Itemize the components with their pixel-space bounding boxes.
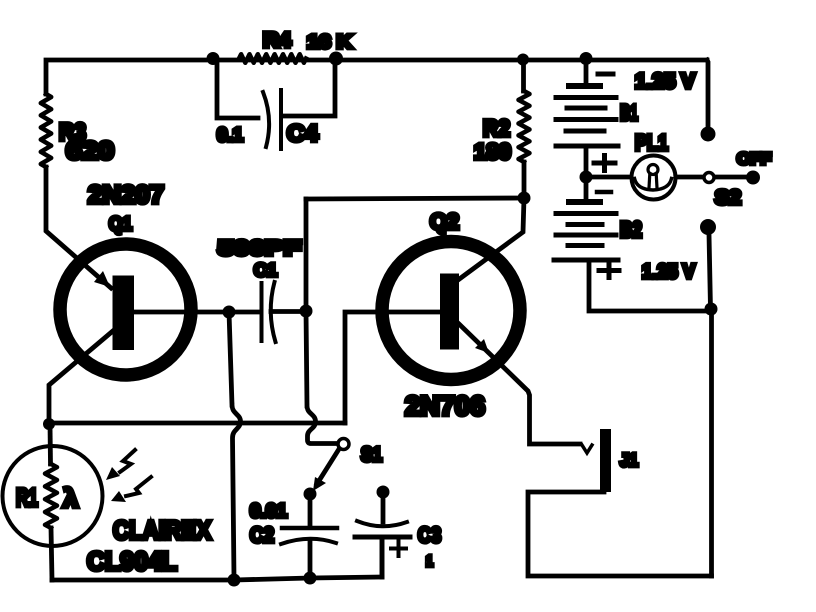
wire feedback vertical x306 xyxy=(304,199,309,311)
switch S1 arm xyxy=(317,449,339,484)
capacitor C4 curved plate xyxy=(263,92,269,147)
svg-text:J1: J1 xyxy=(620,450,638,470)
battery B1 minus sign xyxy=(598,72,613,77)
svg-text:1.25 V: 1.25 V xyxy=(635,70,695,93)
svg-text:2N706: 2N706 xyxy=(405,391,485,421)
wire lamp to S2 xyxy=(676,175,703,180)
light arrow 1 xyxy=(120,450,135,472)
capacitor C3 plus sign xyxy=(391,541,406,556)
svg-text:1.25 V: 1.25 V xyxy=(642,261,696,283)
transistor Q2 base bar xyxy=(440,274,459,350)
node dot bottom rail x234 xyxy=(228,574,241,587)
capacitor C2 straight plate xyxy=(282,526,337,531)
node dot Q1 base junction xyxy=(223,306,236,319)
node dot top-left R4 junction xyxy=(207,52,220,65)
wire feedback horizontal y199 xyxy=(306,198,524,199)
capacitor C2 curved plate xyxy=(281,539,336,544)
transistor Q1 emitter arrowhead xyxy=(94,271,110,287)
resistor element R1 xyxy=(45,464,57,528)
resistor R3 xyxy=(41,94,51,167)
node dot bottom rail C2 xyxy=(304,572,317,585)
svg-text:λ: λ xyxy=(63,483,79,513)
svg-text:1: 1 xyxy=(426,553,433,570)
svg-text:16 K: 16 K xyxy=(307,32,352,53)
capacitor C2 top lead xyxy=(308,494,313,526)
svg-text:B1: B1 xyxy=(620,100,638,125)
battery B2 plus sign xyxy=(599,264,619,278)
jack J1 bar xyxy=(600,429,611,492)
wire bottom rail left xyxy=(52,577,382,580)
capacitor C4 right bracket wire xyxy=(283,60,335,116)
capacitor C3 straight plate xyxy=(355,535,410,540)
node dot C1 right junction xyxy=(300,305,313,318)
node dot S2 upper contact xyxy=(701,127,716,142)
svg-text:CLAIREX: CLAIREX xyxy=(113,515,212,545)
node dot S2 OFF contact xyxy=(746,171,760,185)
svg-text:R2: R2 xyxy=(483,115,510,141)
switch S1 arm arrowhead xyxy=(313,477,326,491)
svg-text:500PF: 500PF xyxy=(218,237,301,260)
capacitor C4 straight plate xyxy=(279,90,283,149)
capacitor C1 curved plate xyxy=(271,282,276,342)
node dot battery junction xyxy=(580,171,593,184)
transistor Q2 collector lead xyxy=(458,198,524,280)
transistor Q2 circle xyxy=(382,242,520,380)
battery B2 plates xyxy=(554,202,618,260)
svg-text:S2: S2 xyxy=(715,187,741,209)
battery B1 plus sign xyxy=(594,156,615,171)
light arrow 2 xyxy=(126,477,151,496)
svg-text:R4: R4 xyxy=(263,29,291,52)
battery B1 bottom lead xyxy=(584,148,589,177)
svg-text:0.1: 0.1 xyxy=(217,125,243,146)
resistor R2 xyxy=(519,91,530,162)
svg-text:C1: C1 xyxy=(254,260,277,280)
node dot Q1 collector R1 junction xyxy=(43,418,55,430)
node dot R4 right junction xyxy=(329,52,343,66)
wire Q2 base from cross-coupling xyxy=(345,312,441,423)
svg-text:R1: R1 xyxy=(16,484,38,512)
battery B1 top lead xyxy=(584,60,589,83)
switch S2 pivot circle xyxy=(704,173,714,183)
wire Q1 emitter rail y423 xyxy=(49,421,345,426)
wire bottom rail right xyxy=(528,492,712,576)
node dot S2 lower contact xyxy=(700,219,716,235)
svg-text:B2: B2 xyxy=(620,217,642,242)
battery B2 minus sign xyxy=(597,190,611,195)
svg-text:C2: C2 xyxy=(250,524,274,547)
svg-text:620: 620 xyxy=(66,137,114,165)
transistor Q1 base bar xyxy=(113,276,135,351)
node dot B1 top junction xyxy=(580,52,593,65)
photocell R1 circle xyxy=(3,446,103,546)
svg-text:Q1: Q1 xyxy=(109,214,132,235)
svg-text:S1: S1 xyxy=(361,444,382,466)
battery B2 top lead xyxy=(584,177,589,199)
wire R2 top lead xyxy=(521,60,526,91)
wire top rail xyxy=(46,60,707,94)
battery B2 bottom lead xyxy=(589,260,711,311)
node dot S1 throw contact xyxy=(304,488,317,501)
svg-text:C3: C3 xyxy=(418,524,441,547)
wire Q1 base to C1 xyxy=(134,310,258,315)
capacitor C3 bottom lead xyxy=(380,539,385,577)
wire battery junction to lamp xyxy=(586,175,630,180)
svg-text:0.01: 0.01 xyxy=(250,501,287,522)
svg-text:180: 180 xyxy=(474,139,511,164)
capacitor C3 top terminal dot xyxy=(377,486,390,499)
wire S2 upper contact drop xyxy=(707,60,708,128)
photocell R1 bottom lead xyxy=(51,528,52,580)
svg-text:2N207: 2N207 xyxy=(88,181,164,209)
switch S2 arm to OFF contact xyxy=(715,175,747,180)
wire right side down xyxy=(709,309,714,576)
photocell R1 top lead xyxy=(48,424,53,464)
capacitor C2 bottom lead xyxy=(308,541,313,578)
capacitor C3 curved plate xyxy=(357,521,407,526)
node dot right corner junction xyxy=(705,303,718,316)
wire feedback drop to S1 with hop over xyxy=(306,311,337,444)
wire C3 bottom corner up xyxy=(380,539,385,577)
wire C1 right to feedback node xyxy=(271,309,306,314)
capacitor C3 top lead xyxy=(381,492,386,522)
wire base drop x232 with hop over xyxy=(229,312,241,578)
svg-text:C4: C4 xyxy=(287,120,318,146)
wire R3 bottom to Q1 emitter xyxy=(46,167,111,288)
transistor Q1 collector lead xyxy=(49,330,114,424)
svg-text:CL904L: CL904L xyxy=(87,546,177,576)
transistor Q2 emitter arrowhead xyxy=(475,339,489,353)
battery B1 plates xyxy=(556,86,618,146)
resistor R4 xyxy=(239,54,306,63)
wire R2 bottom lead xyxy=(522,162,527,198)
node dot R2 top junction xyxy=(517,54,529,66)
switch S1 pivot circle xyxy=(338,439,349,450)
svg-text:Q2: Q2 xyxy=(430,209,459,234)
svg-text:OFF: OFF xyxy=(737,151,771,168)
svg-text:PL1: PL1 xyxy=(635,130,668,155)
lamp PL1 filament loop xyxy=(635,179,672,191)
transistor Q2 emitter lead xyxy=(459,324,580,444)
capacitor C4 left bracket wire xyxy=(217,60,258,118)
wire S2 lower contact drop xyxy=(709,234,711,309)
lamp PL1 circle xyxy=(632,156,676,200)
jack J1 plug tip mark xyxy=(582,445,592,453)
transistor Q1 circle xyxy=(60,244,191,375)
capacitor C1 straight plate xyxy=(260,283,264,341)
node dot R2 bottom Q2 collector junction xyxy=(518,192,531,205)
